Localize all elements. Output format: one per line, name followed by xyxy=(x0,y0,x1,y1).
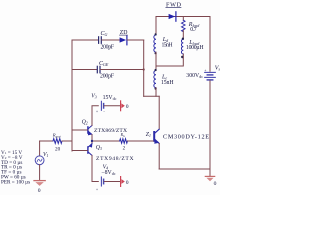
wire collector xyxy=(158,96,160,129)
wire Q2 collector up xyxy=(92,106,98,126)
svg-text:V1: V1 xyxy=(43,152,49,158)
wire jog to collector xyxy=(144,95,160,97)
ground 0 left xyxy=(34,180,45,182)
svg-text:0.7: 0.7 xyxy=(190,27,197,33)
svg-text:ZTX869/ZTX: ZTX869/ZTX xyxy=(94,128,127,134)
wire CG branch top xyxy=(72,39,98,41)
wire xyxy=(101,69,144,71)
svg-text:+: + xyxy=(96,110,98,114)
svg-text:Vs: Vs xyxy=(215,65,220,71)
inductor Lload xyxy=(181,39,183,54)
resistor Rgext xyxy=(53,139,62,144)
diode ZD xyxy=(120,37,127,42)
svg-text:Q2: Q2 xyxy=(82,119,88,125)
transistor Q3 xyxy=(87,146,88,154)
diode FWD xyxy=(169,14,176,19)
node 0 marker bottom xyxy=(120,177,122,187)
svg-text:Rgext: Rgext xyxy=(52,133,61,139)
battery Vs 300Vdc xyxy=(205,72,216,80)
wire xyxy=(156,54,183,66)
svg-text:0: 0 xyxy=(126,104,129,110)
inductor Le xyxy=(154,71,156,88)
svg-text:0: 0 xyxy=(214,181,217,187)
wire emitter xyxy=(158,144,160,170)
svg-text:20: 20 xyxy=(55,146,61,152)
svg-text:CGE: CGE xyxy=(99,61,109,67)
node 0 marker top xyxy=(120,101,122,111)
wire left rail xyxy=(71,40,73,151)
svg-text:0: 0 xyxy=(126,180,129,186)
source V4 -8Vdc xyxy=(101,177,103,186)
source V3 15Vdc xyxy=(101,101,103,110)
wire Q3 collector down xyxy=(92,155,98,181)
wire xyxy=(182,31,184,40)
wire CGE branch xyxy=(72,69,97,71)
svg-text:Z1: Z1 xyxy=(146,132,151,138)
wire xyxy=(127,39,143,41)
wire to pulse source xyxy=(39,141,41,156)
svg-text:−: − xyxy=(103,110,105,114)
resistor RG xyxy=(120,139,128,143)
wire right rail xyxy=(209,17,211,72)
capacitor CGE xyxy=(97,66,100,73)
wire xyxy=(155,88,157,97)
wire inductor rail top xyxy=(155,17,157,36)
svg-text:1000µH: 1000µH xyxy=(186,45,204,51)
wire gate xyxy=(92,140,120,142)
resistor Rload xyxy=(182,20,186,31)
wire xyxy=(155,52,157,70)
svg-text:+: + xyxy=(204,69,206,73)
svg-text:15Vdc: 15Vdc xyxy=(103,95,117,101)
wire xyxy=(39,165,41,181)
transistor Q2 xyxy=(87,126,88,134)
svg-text:CG: CG xyxy=(101,31,108,37)
svg-text:ZTX948/ZTX: ZTX948/ZTX xyxy=(96,156,134,162)
ground 0 right xyxy=(209,169,211,176)
transistor Z1 IGBT xyxy=(153,131,155,142)
svg-text:CM300DY-12E: CM300DY-12E xyxy=(163,134,209,141)
wire xyxy=(102,39,120,41)
node CGE/ZD tee xyxy=(143,68,145,70)
wire ZD/CGE vertical xyxy=(143,40,145,96)
wire bottom xyxy=(159,168,210,170)
source V1 pulse xyxy=(35,156,44,165)
wire input xyxy=(40,140,53,142)
svg-text:Q3: Q3 xyxy=(96,145,102,151)
wire top rail xyxy=(156,16,210,18)
svg-text:2: 2 xyxy=(123,146,126,151)
svg-text:15nH: 15nH xyxy=(161,80,174,86)
pulse parameters text xyxy=(1,150,30,185)
svg-text:15nH: 15nH xyxy=(162,43,174,49)
node gate junction xyxy=(91,140,93,142)
svg-text:200pF: 200pF xyxy=(101,45,115,51)
wire Rload branch top xyxy=(182,17,184,21)
svg-text:PER = 100 µs: PER = 100 µs xyxy=(1,179,30,185)
capacitor CG xyxy=(99,37,102,44)
svg-text:300Vdc: 300Vdc xyxy=(186,73,203,79)
wire Q2 emitter to node xyxy=(91,135,93,144)
svg-text:200pF: 200pF xyxy=(100,73,115,79)
svg-text:0: 0 xyxy=(38,188,41,194)
svg-text:+: + xyxy=(96,188,98,192)
inductor Ld xyxy=(154,35,156,52)
svg-text:V3: V3 xyxy=(91,93,97,99)
svg-text:−8Vdc: −8Vdc xyxy=(101,170,115,176)
